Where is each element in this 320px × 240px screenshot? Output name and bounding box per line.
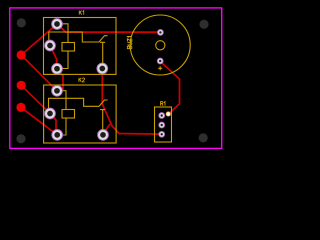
mounting hole bottom-left bbox=[16, 134, 25, 143]
relay K1 pad2 bbox=[45, 40, 56, 51]
label BUZ1 bbox=[127, 37, 131, 49]
wire K1 pad1 to BUZ1 top pad bbox=[57, 24, 160, 32]
wire K1 pad4 to R1 pad3 bbox=[102, 70, 161, 134]
relay K2 pad4 bbox=[98, 130, 109, 141]
buzzer BUZ1 silkscreen bbox=[130, 15, 190, 75]
wire K1 pad2 to K1 pad3 bbox=[50, 46, 57, 69]
wire pad C to K2 pad3 bbox=[21, 107, 57, 134]
relay K2 pad1 bbox=[52, 85, 63, 96]
wire BUZ1 bottom pad to via bbox=[160, 61, 179, 114]
relay K2 pad2 bbox=[45, 108, 56, 119]
mounting hole bottom-right bbox=[199, 133, 208, 142]
mounting hole top-right bbox=[199, 20, 208, 29]
wire K1 pad3 to K2 pad1 bbox=[57, 69, 63, 91]
relay K1 pad1 bbox=[52, 19, 63, 30]
trimmer R1 pad2 bbox=[159, 122, 165, 128]
relay K2 silkscreen bbox=[44, 85, 117, 143]
wire pad A to K1 pad1 bbox=[21, 24, 57, 55]
trimmer R1 pad1 bbox=[159, 113, 165, 119]
wire branch to K2 pad4 bbox=[104, 124, 111, 133]
buzzer BUZ1 bottom pad bbox=[157, 58, 163, 64]
trimmer R1 pad3 bbox=[159, 131, 165, 137]
relay K1 pad4 bbox=[97, 63, 108, 74]
mounting hole top-left bbox=[17, 18, 26, 27]
buzzer BUZ1 top pad bbox=[158, 30, 164, 36]
relay K2 pad3 bbox=[52, 130, 63, 141]
pad C bbox=[16, 103, 25, 112]
label K1 bbox=[79, 11, 83, 15]
board outline bbox=[10, 8, 222, 149]
wire pad B to K2 pad2 bbox=[21, 85, 50, 113]
trimmer R1 silkscreen bbox=[155, 107, 172, 142]
wire pad A to K2 pad1 bbox=[21, 55, 57, 91]
pad A bbox=[17, 50, 26, 59]
pad B bbox=[17, 81, 26, 90]
relay K1 pad3 bbox=[52, 63, 63, 74]
via node near R1 pin1 bbox=[166, 112, 170, 116]
wire K2 pad2 to K2 pad3 bbox=[50, 114, 56, 135]
label K2 bbox=[79, 78, 85, 82]
label R1 bbox=[161, 102, 165, 106]
relay K1 silkscreen bbox=[44, 18, 117, 75]
